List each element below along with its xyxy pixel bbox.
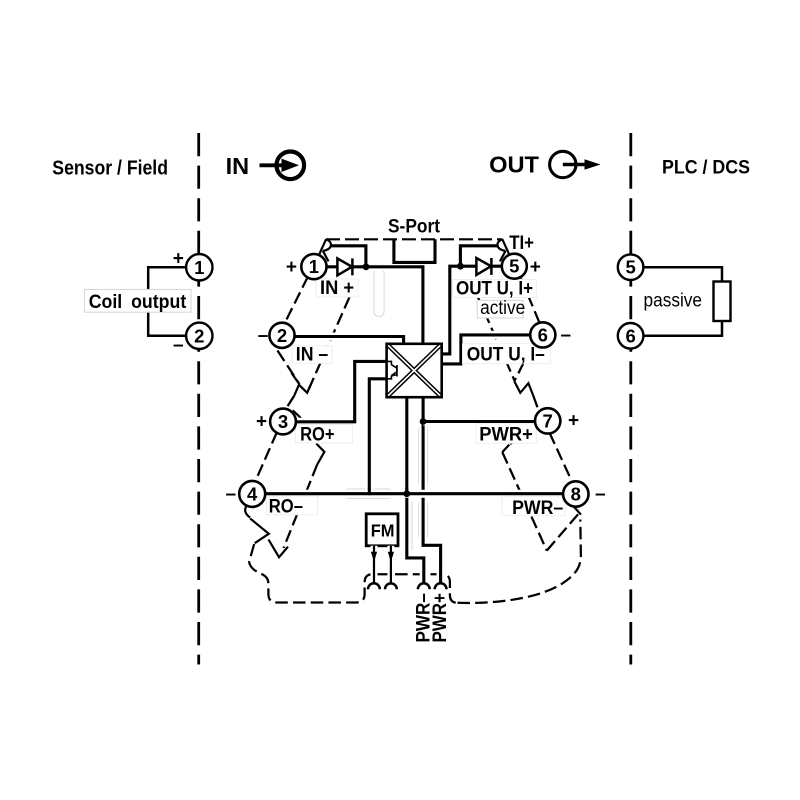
wire RO+ : terminal 3 to box left [296,361,387,421]
terminal 6 outer [618,323,644,349]
wire TI+ test loop to hook [460,246,498,266]
wire IN+ : terminal 1 through diode to box top [327,267,423,344]
solid nub at terminal 3 [293,410,300,417]
svg-text:OUT U, I–: OUT U, I– [467,344,545,365]
svg-text:2: 2 [277,325,287,346]
terminal 5 outer [618,254,644,280]
wire box bottom right to PWR+ connector [423,397,441,583]
label OUT U, I+ [453,279,537,300]
svg-text:+: + [173,249,184,270]
svg-text:FM: FM [371,521,395,541]
cable break zigzag between 2 and 3 [292,373,311,396]
transistor Q1 inside block [387,361,397,378]
dashed link 3-4 [255,432,277,482]
label active [477,298,525,319]
elbow below PWR+ label [502,445,509,453]
cable break below terminal 4 [245,506,288,557]
dashed inner diagonal RO+ elbow to break below 4 [284,465,318,548]
svg-text:+: + [530,257,541,278]
svg-text:IN –: IN – [296,345,329,366]
svg-text:5: 5 [625,257,635,278]
dashed link break-3 [286,396,295,410]
elbow below RO+ label [316,444,324,465]
junction dot PWR+ [420,418,427,425]
terminal 5 [502,254,527,279]
wire passive load loop [644,267,722,336]
socket arc PWR- [418,583,430,589]
svg-text:6: 6 [538,324,548,345]
junction dot PWR- [403,490,410,497]
label PWR- (rotated, bottom) [413,591,434,644]
label IN + [316,278,358,299]
halo band left bottom wire lower [404,500,413,552]
dashed V right leg to terminal 8 [547,513,580,551]
wire RO- / PWR- rail : terminal 4 to terminal 8 [265,490,563,498]
socket arc PWR+ [435,583,447,589]
OUT icon (circle with arrow exiting) [550,151,601,177]
resistor (passive load) [714,282,731,322]
dashed link 2-break [278,351,299,384]
cable break zigzag between 6 and 7 [514,381,533,395]
svg-text:+: + [286,257,297,278]
svg-text:PLC / DCS: PLC / DCS [662,157,750,179]
dashed inner diagonal OUT U,I+ to break [477,295,514,380]
dashed bottom sweep to terminal 8 [458,520,581,604]
terminal 7 [535,408,560,433]
label RO+ [296,425,353,446]
svg-text:1: 1 [194,257,204,278]
svg-text:–: – [226,484,237,505]
terminal 6 [530,322,555,347]
label OUT U, I- [463,344,551,366]
svg-text:PWR–: PWR– [512,498,563,519]
wire PWR+ : junction to terminal 7 [423,418,535,426]
connector socket arcs [368,583,447,589]
svg-text:–: – [561,325,572,346]
svg-text:IN: IN [226,153,250,179]
dashed link break-7 [533,396,537,408]
label Coil output [85,290,192,314]
S-Port box U1 [394,239,435,262]
dashed S-Port top line [326,238,502,240]
dashed boundary line right (OUT | PLC/DCS) [629,133,632,665]
disconnect hook at terminal 1 [319,239,331,261]
IN icon (circle with arrow entering) [260,152,305,180]
FM wire left with arrow [371,546,377,584]
wire OUT U,I- : terminal 6 to box right [442,335,530,364]
dashed boundary line left (Sensor/Field | IN) [197,133,200,665]
disconnect hook at terminal 5 [497,239,509,261]
terminal 3 [270,409,296,435]
FM box [366,514,398,546]
wire OUT U,I+ : box right to terminal 5 [442,266,502,354]
svg-text:2: 2 [194,325,204,346]
junction dot IN+ [363,263,370,270]
label IN - [292,345,332,366]
terminal 4 [239,481,265,507]
dashed link 6-break [514,346,532,381]
svg-text:+: + [568,411,579,432]
dashed link 5-6 [521,279,540,325]
dashed link 1-2 [285,277,308,323]
halo band right bottom wire upper [419,426,428,488]
label PWR+ (rotated, bottom) [430,591,451,644]
svg-text:OUT U, I+: OUT U, I+ [456,279,533,300]
terminal 8 [563,481,588,506]
svg-text:PWR+: PWR+ [479,424,533,445]
wire IN- : terminal 2 to box top [295,337,404,344]
svg-text:–: – [595,484,606,505]
diode D1 (input) [337,258,352,275]
label RO- [267,496,318,518]
terminal 1 outer [186,254,212,280]
svg-text:IN +: IN + [320,278,354,299]
svg-text:8: 8 [571,484,581,505]
terminal 2 [269,323,294,348]
svg-text:Sensor / Field: Sensor / Field [52,158,168,180]
wire RO- branch up to box left [369,379,386,494]
dashed below break 4 [249,544,254,562]
svg-text:PWR+: PWR+ [430,593,451,642]
socket arc FM right [385,583,397,589]
svg-text:S-Port: S-Port [388,217,441,238]
halo band near RO-/PWR- junction [344,489,393,499]
svg-text:5: 5 [509,256,519,277]
dashed inner diagonal under RO+ [300,417,317,444]
junction dot OUT [457,263,464,270]
svg-text:4: 4 [247,483,258,504]
dashed link 7-8 [549,433,571,482]
halo band right bottom wire lower [419,500,428,540]
label PWR- (right) [502,496,565,519]
svg-text:Coil output: Coil output [89,292,187,313]
svg-text:3: 3 [278,411,288,432]
terminal 1 [301,254,326,279]
wire box bottom left to PWR- connector [407,397,424,583]
halo band near IN+ loop [374,269,384,317]
junction stubs [369,416,423,495]
FM wire right with arrow [388,546,394,584]
dashed inner diagonal IN+ to break [307,297,349,393]
svg-text:RO–: RO– [269,497,303,518]
dashed inner diagonal under PWR+ [509,427,535,445]
svg-text:active: active [480,298,525,319]
isolation amplifier block (X box) [387,344,442,397]
dashed bottom outline left [249,562,458,603]
label PWR+ [476,424,537,446]
wire IN+ test loop to hook [330,246,366,267]
terminal 2 outer [186,323,212,349]
svg-text:1: 1 [309,256,319,277]
diode D2 (output) [476,258,491,275]
svg-text:+: + [256,412,267,433]
svg-text:6: 6 [625,325,635,346]
svg-text:–: – [258,325,269,346]
dashed inner diagonal PWR+ elbow to break below 8 [502,452,547,550]
svg-text:–: – [173,335,184,356]
svg-text:7: 7 [543,410,553,431]
wire coil loop [148,267,186,336]
svg-text:TI+: TI+ [509,233,534,254]
socket arc FM left [368,583,380,589]
svg-text:passive: passive [644,291,703,312]
svg-text:OUT: OUT [489,151,540,177]
svg-text:RO+: RO+ [300,425,335,446]
cable break below terminal 8 (nub from 8) [574,507,581,514]
